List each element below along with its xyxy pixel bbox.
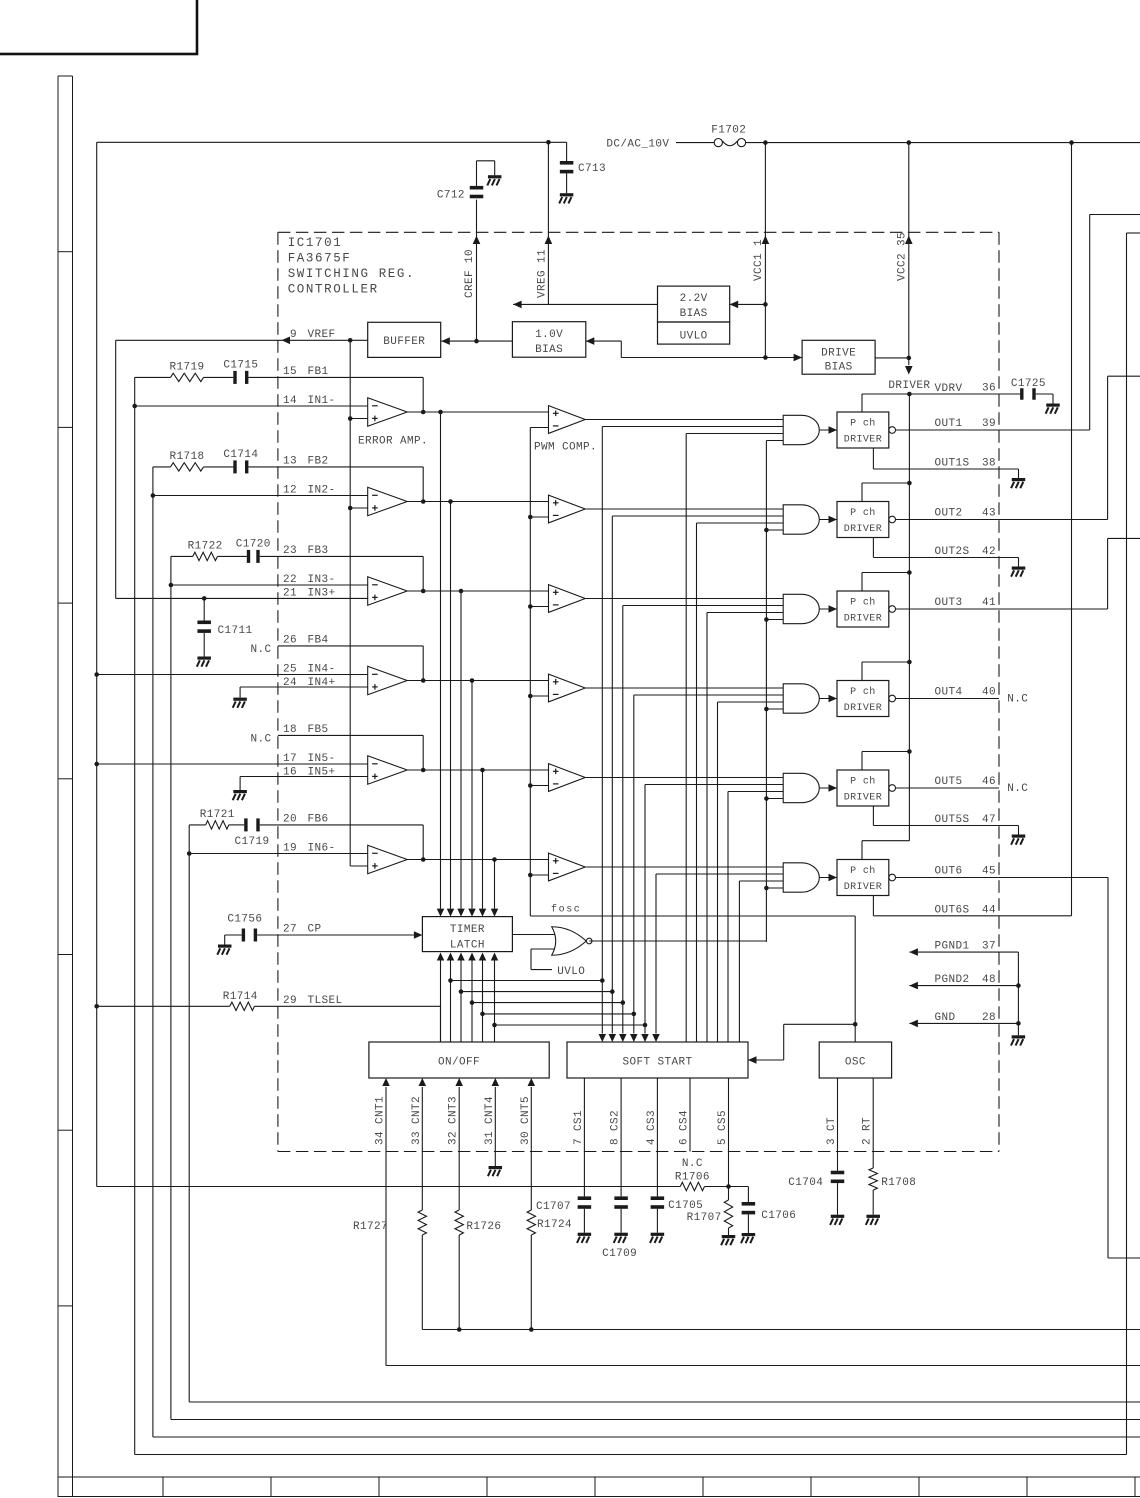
svg-text:DRIVER: DRIVER (844, 793, 882, 804)
svg-text:OUT2S: OUT2S (935, 546, 970, 558)
svg-text:32 CNT3: 32 CNT3 (448, 1096, 460, 1145)
svg-text:4 CS3: 4 CS3 (646, 1110, 658, 1145)
svg-text:46: 46 (982, 776, 996, 788)
svg-text:OUT5: OUT5 (935, 776, 963, 788)
svg-text:CP: CP (308, 924, 322, 936)
svg-text:43: 43 (982, 508, 996, 520)
svg-text:34 CNT1: 34 CNT1 (375, 1096, 387, 1145)
svg-text:14: 14 (283, 395, 297, 407)
svg-text:C1709: C1709 (602, 1248, 637, 1260)
svg-text:C1720: C1720 (236, 538, 271, 550)
svg-text:29: 29 (283, 995, 297, 1007)
svg-text:FB5: FB5 (308, 724, 329, 736)
svg-text:N.C: N.C (1007, 783, 1028, 795)
svg-text:19: 19 (283, 842, 297, 854)
svg-text:R1718: R1718 (169, 451, 204, 463)
svg-text:R1726: R1726 (466, 1221, 501, 1233)
svg-text:1.0V: 1.0V (535, 329, 563, 341)
svg-text:OUT6: OUT6 (935, 866, 963, 878)
svg-text:CONTROLLER: CONTROLLER (288, 283, 379, 297)
svg-text:12: 12 (283, 484, 297, 496)
svg-text:IN2-: IN2- (308, 484, 336, 496)
svg-text:fosc: fosc (551, 904, 581, 916)
svg-text:DRIVER: DRIVER (888, 380, 930, 392)
svg-text:5 CS5: 5 CS5 (717, 1110, 729, 1145)
svg-text:N.C: N.C (682, 1158, 703, 1170)
svg-text:SOFT START: SOFT START (622, 1057, 692, 1069)
svg-text:SWITCHING REG.: SWITCHING REG. (288, 267, 415, 281)
svg-text:33 CNT2: 33 CNT2 (411, 1096, 423, 1145)
svg-text:OUT2: OUT2 (935, 508, 963, 520)
svg-text:17: 17 (283, 753, 297, 765)
svg-text:25: 25 (283, 663, 297, 675)
svg-text:R1727: R1727 (353, 1221, 388, 1233)
svg-text:C1705: C1705 (668, 1200, 703, 1212)
svg-text:41: 41 (982, 597, 996, 609)
svg-text:VCC2 35: VCC2 35 (896, 232, 908, 281)
svg-text:C1714: C1714 (223, 449, 258, 461)
svg-text:VCC1 1: VCC1 1 (753, 239, 765, 281)
svg-text:2.2V: 2.2V (680, 293, 708, 305)
svg-text:BIAS: BIAS (535, 344, 563, 356)
svg-text:20: 20 (283, 814, 297, 826)
svg-text:C1704: C1704 (788, 1177, 823, 1189)
svg-text:OUT1S: OUT1S (935, 458, 970, 470)
svg-text:15: 15 (283, 366, 297, 378)
svg-text:C1725: C1725 (1011, 378, 1046, 390)
svg-text:C1715: C1715 (223, 359, 258, 371)
svg-text:P ch: P ch (850, 865, 876, 877)
svg-text:OUT3: OUT3 (935, 597, 963, 609)
svg-text:13: 13 (283, 456, 297, 468)
svg-text:OUT1: OUT1 (935, 418, 963, 430)
svg-text:TIMER: TIMER (450, 924, 485, 936)
svg-text:DC/AC_10V: DC/AC_10V (606, 139, 669, 151)
svg-text:IN4-: IN4- (308, 663, 336, 675)
svg-text:47: 47 (982, 814, 996, 826)
svg-text:FB2: FB2 (308, 456, 329, 468)
svg-text:VREF: VREF (308, 329, 336, 341)
svg-text:39: 39 (982, 418, 996, 430)
svg-text:N.C: N.C (250, 733, 271, 745)
svg-text:3 CT: 3 CT (826, 1117, 838, 1145)
svg-text:P ch: P ch (850, 686, 876, 698)
svg-text:OUT6S: OUT6S (935, 904, 970, 916)
svg-text:38: 38 (982, 458, 996, 470)
svg-text:P ch: P ch (850, 597, 876, 609)
svg-text:30 CNT5: 30 CNT5 (520, 1096, 532, 1145)
svg-text:OSC: OSC (845, 1057, 866, 1069)
svg-text:OUT4: OUT4 (935, 687, 963, 699)
svg-text:42: 42 (982, 546, 996, 558)
svg-text:R1714: R1714 (223, 991, 258, 1003)
svg-text:36: 36 (982, 383, 996, 395)
svg-text:IC1701: IC1701 (288, 236, 343, 250)
svg-text:31 CNT4: 31 CNT4 (484, 1096, 496, 1145)
svg-text:GND: GND (935, 1012, 956, 1024)
svg-text:BUFFER: BUFFER (383, 336, 425, 348)
svg-text:DRIVER: DRIVER (844, 703, 882, 714)
svg-text:C713: C713 (578, 163, 606, 175)
svg-text:2 RT: 2 RT (862, 1117, 874, 1145)
svg-text:PWM COMP.: PWM COMP. (534, 442, 597, 454)
svg-text:40: 40 (982, 687, 996, 699)
svg-text:48: 48 (982, 974, 996, 986)
svg-text:VREG 11: VREG 11 (536, 249, 548, 298)
svg-text:N.C: N.C (250, 644, 271, 656)
svg-text:BIAS: BIAS (825, 362, 853, 374)
svg-text:DRIVER: DRIVER (844, 435, 882, 446)
svg-text:8 CS2: 8 CS2 (610, 1110, 622, 1145)
svg-text:CREF 10: CREF 10 (464, 249, 476, 298)
svg-text:DRIVER: DRIVER (844, 524, 882, 535)
svg-text:IN1-: IN1- (308, 395, 336, 407)
svg-text:C1711: C1711 (218, 625, 253, 637)
svg-text:IN3+: IN3+ (308, 588, 336, 600)
svg-text:ERROR AMP.: ERROR AMP. (358, 436, 428, 448)
svg-text:IN6-: IN6- (308, 842, 336, 854)
svg-text:7 CS1: 7 CS1 (573, 1110, 585, 1145)
svg-text:OUT5S: OUT5S (935, 814, 970, 826)
svg-text:LATCH: LATCH (450, 940, 485, 952)
svg-text:R1719: R1719 (169, 361, 204, 373)
svg-text:TLSEL: TLSEL (308, 995, 343, 1007)
svg-text:44: 44 (982, 904, 996, 916)
svg-text:P ch: P ch (850, 418, 876, 430)
svg-text:R1724: R1724 (537, 1219, 572, 1231)
svg-text:C1706: C1706 (761, 1210, 796, 1222)
svg-text:DRIVE: DRIVE (821, 348, 856, 360)
svg-text:PGND1: PGND1 (935, 941, 970, 953)
svg-text:9: 9 (290, 329, 297, 341)
svg-text:IN3-: IN3- (308, 574, 336, 586)
svg-text:C1719: C1719 (234, 836, 269, 848)
svg-text:28: 28 (982, 1012, 996, 1024)
svg-text:FB4: FB4 (308, 635, 329, 647)
svg-text:ON/OFF: ON/OFF (438, 1057, 480, 1069)
svg-text:18: 18 (283, 724, 297, 736)
svg-text:6 CS4: 6 CS4 (679, 1110, 691, 1145)
svg-text:UVLO: UVLO (557, 966, 585, 978)
svg-text:21: 21 (283, 588, 297, 600)
svg-text:FB6: FB6 (308, 814, 329, 826)
svg-text:P ch: P ch (850, 507, 876, 519)
svg-text:P ch: P ch (850, 776, 876, 788)
svg-text:R1722: R1722 (188, 540, 223, 552)
svg-text:VDRV: VDRV (935, 383, 963, 395)
svg-text:IN5-: IN5- (308, 753, 336, 765)
svg-text:C712: C712 (437, 190, 465, 202)
svg-text:27: 27 (283, 924, 297, 936)
svg-text:45: 45 (982, 866, 996, 878)
svg-text:DRIVER: DRIVER (844, 614, 882, 625)
svg-text:26: 26 (283, 635, 297, 647)
svg-text:37: 37 (982, 941, 996, 953)
svg-text:22: 22 (283, 574, 297, 586)
svg-text:R1708: R1708 (881, 1177, 916, 1189)
svg-text:R1706: R1706 (675, 1171, 710, 1183)
svg-text:C1707: C1707 (536, 1201, 571, 1213)
svg-text:FA3675F: FA3675F (288, 252, 352, 266)
svg-text:PGND2: PGND2 (935, 974, 970, 986)
svg-text:N.C: N.C (1007, 694, 1028, 706)
svg-text:R1707: R1707 (687, 1212, 722, 1224)
svg-text:F1702: F1702 (711, 125, 746, 137)
svg-text:FB1: FB1 (308, 366, 329, 378)
svg-text:23: 23 (283, 545, 297, 557)
svg-text:UVLO: UVLO (680, 331, 708, 343)
svg-text:BIAS: BIAS (680, 308, 708, 320)
svg-text:FB3: FB3 (308, 545, 329, 557)
svg-text:DRIVER: DRIVER (844, 882, 882, 893)
svg-text:C1756: C1756 (227, 914, 262, 926)
svg-text:R1721: R1721 (200, 809, 235, 821)
